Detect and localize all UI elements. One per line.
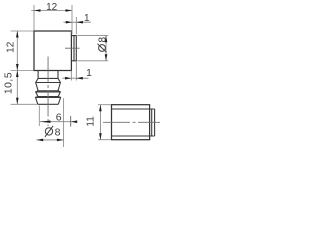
dim 6: extension lines [39,98,70,147]
dim Ø8 collar: arrows [105,36,108,61]
dim 11: extension lines [98,105,111,140]
right side view: nipple silhouette lines [112,109,155,136]
dim Ø8 collar: dimension line [105,36,107,61]
collar (nipple Ø8 x 1 on right face of body) [71,36,76,61]
right side view: centerline (dash-dot) [103,121,160,123]
dim 6: dimension line [40,121,77,123]
svg-text:11: 11 [85,116,96,127]
dim 1 top (collar length): ext line [75,17,77,34]
dim 1 bottom: arrows (outside) [65,77,83,80]
stem centerline (dash-dot) [47,57,49,127]
barbed stem silhouette [36,71,61,105]
dim 1 top: dimension line [64,21,92,23]
dim 6: arrows [40,120,77,123]
right side view: body outline [112,105,150,140]
dim 1 bottom (collar, from below): ext lines [71,61,76,81]
dim 12 left + 10,5: shared dimension line [16,31,18,104]
svg-text:12: 12 [46,2,58,13]
dim Ø8 collar: extension lines [77,36,108,61]
svg-text:8: 8 [97,37,108,43]
dim Ø8 bottom: diameter symbol [45,126,53,137]
svg-text:8: 8 [55,127,61,139]
svg-text:1: 1 [86,68,92,79]
dim 12 left: extension lines [11,31,38,104]
barb ridge lines [36,78,61,104]
dim 11: dimension line [99,105,101,140]
svg-text:6: 6 [56,111,62,123]
dim Ø8 bottom: dimension line [36,139,63,141]
dim 12 left arrows [16,31,19,104]
svg-text:1: 1 [84,13,90,24]
body outline (main front view, 12x12 square) [34,31,71,71]
svg-text:12: 12 [5,41,16,53]
dim 11: arrows [99,105,102,140]
collar centerline [65,47,80,49]
dim Ø8 bottom: arrows [37,139,64,142]
dim 12 top: dimension line [31,10,72,12]
dim 1 top: arrows (outside) [66,21,83,24]
dim Ø8 collar: rotated text [97,37,108,53]
svg-text:10,5: 10,5 [4,72,15,94]
dim 1 bottom: dimension line [63,77,89,79]
dim 12 top: arrows [34,9,72,12]
dim 12 top: extension lines [34,5,72,34]
